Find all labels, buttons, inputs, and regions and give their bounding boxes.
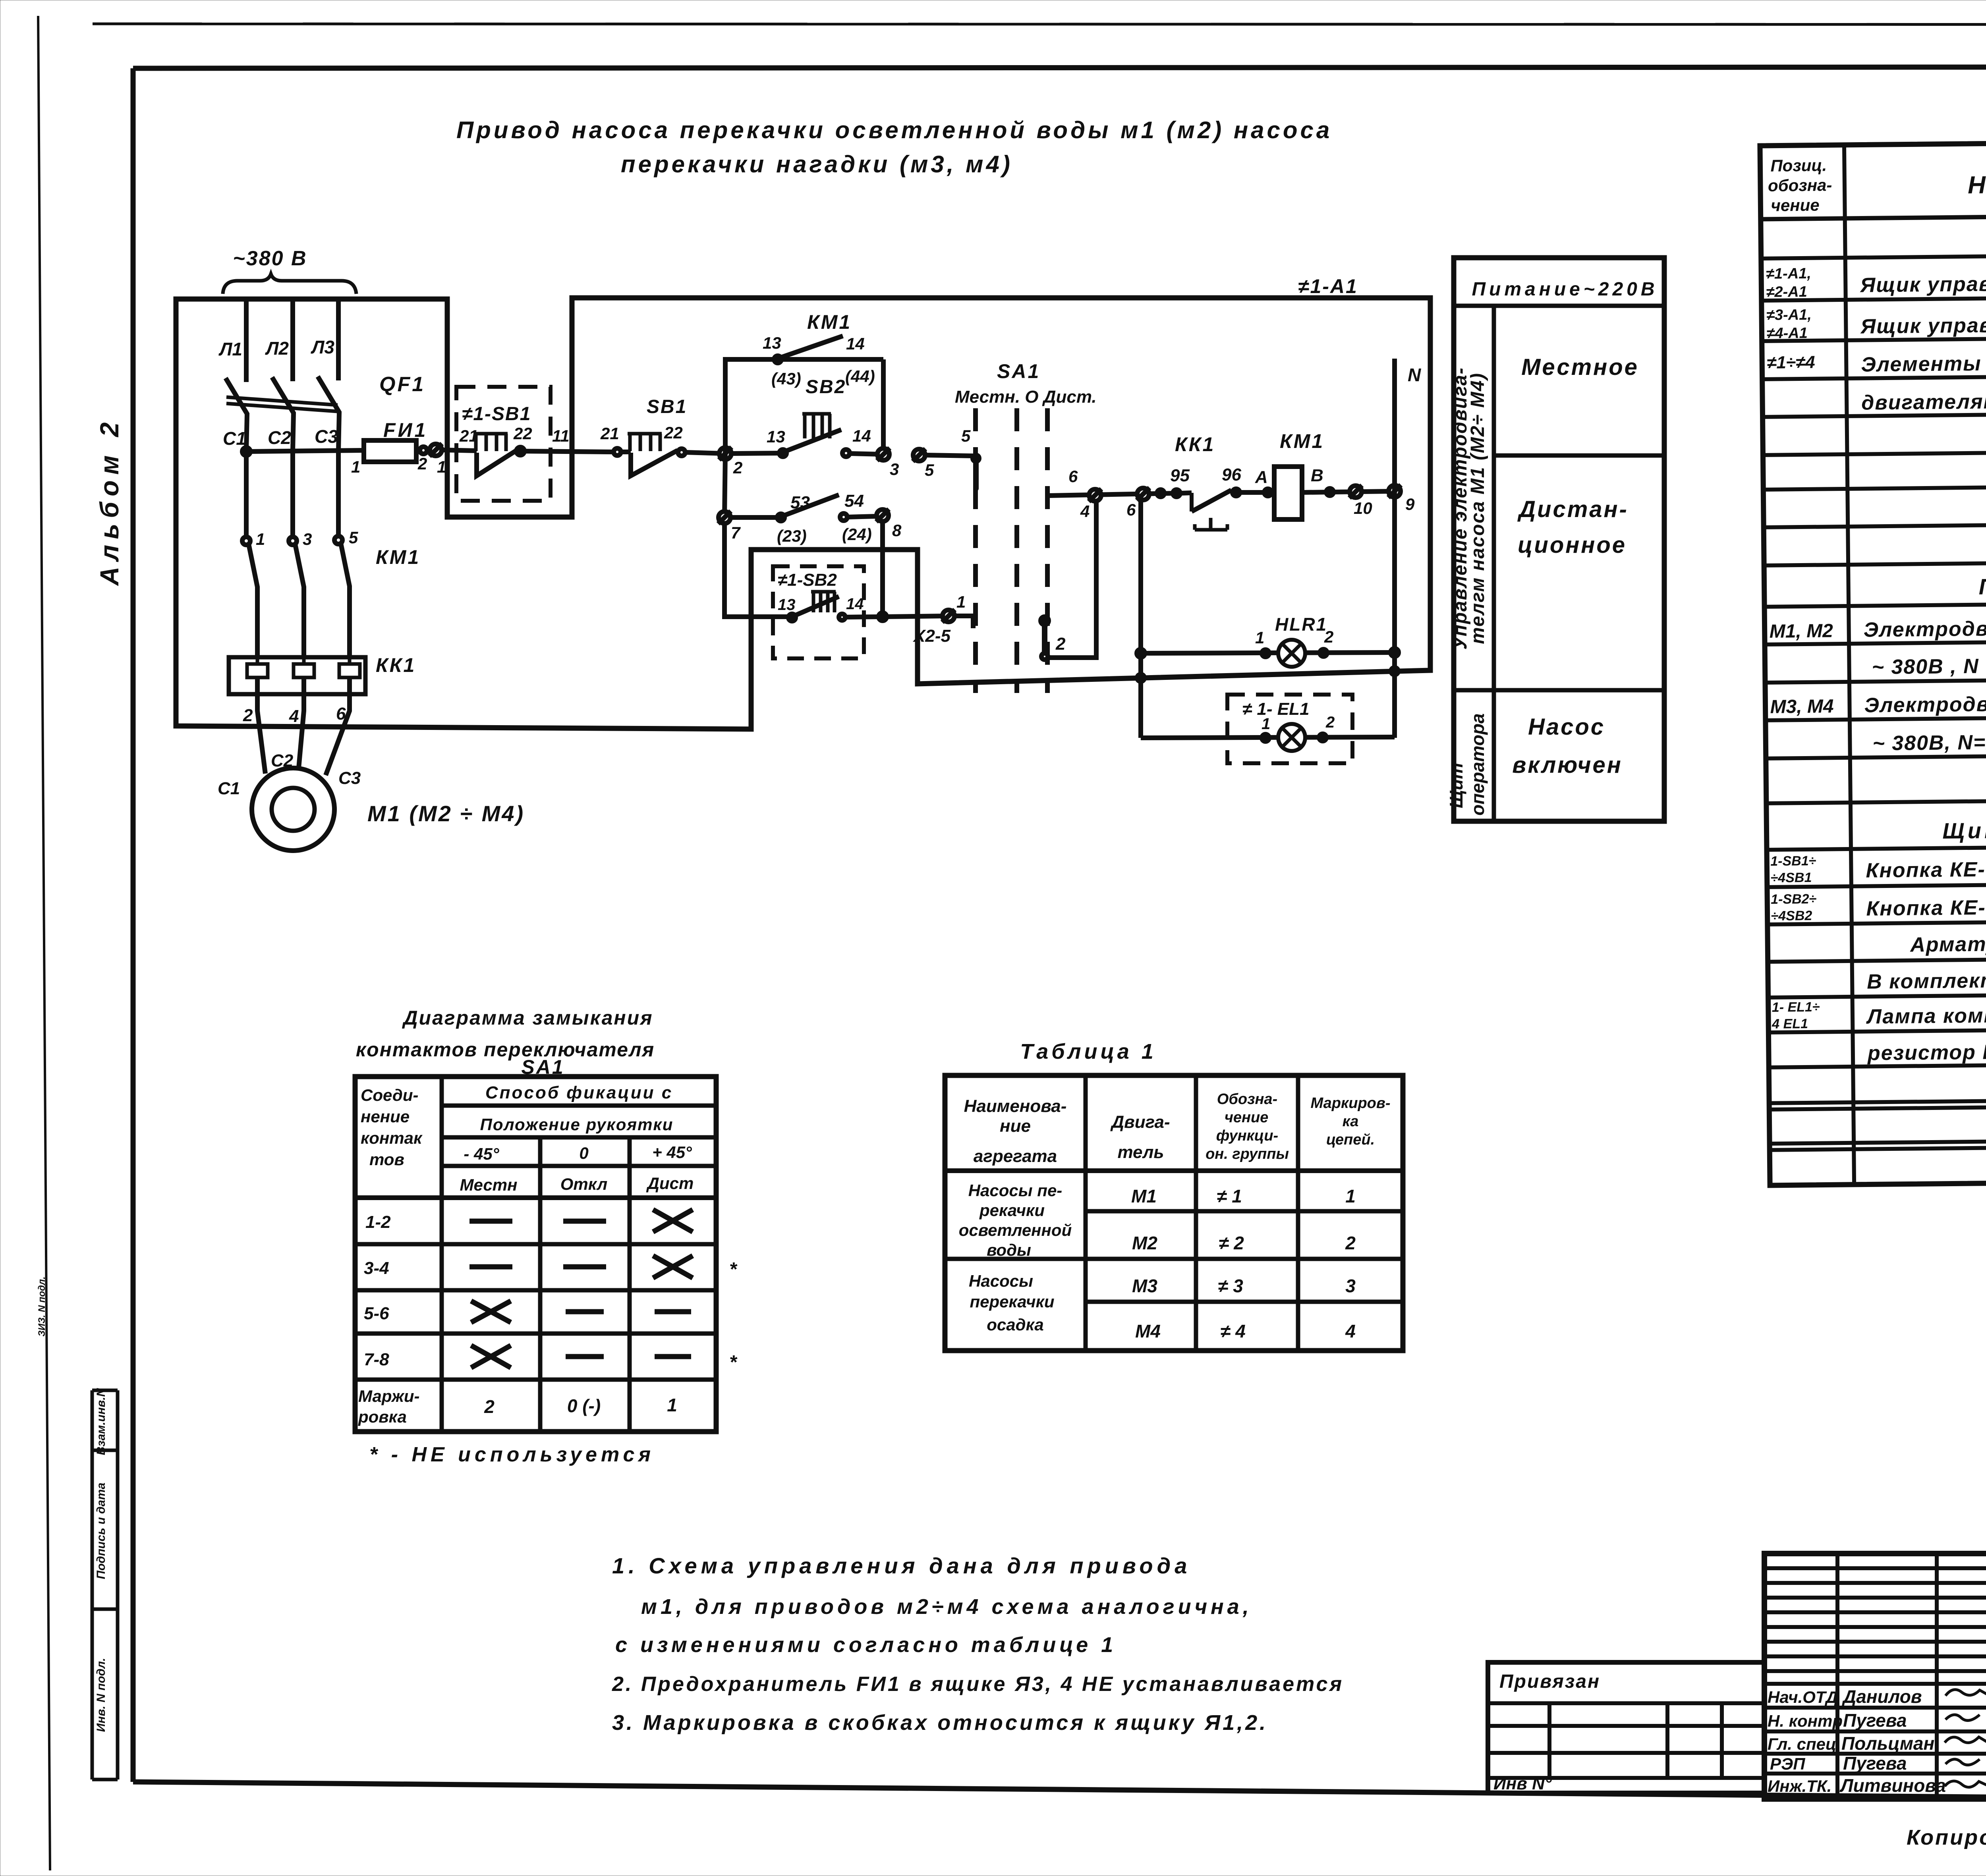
svg-text:резистор ПЭВ-25 ТУ16-535-58: резистор ПЭВ-25 ТУ16-535-582·76 bbox=[1867, 1038, 1986, 1065]
svg-text:*: * bbox=[729, 1352, 738, 1373]
svg-text:двигателями М1 ÷ М4: двигателями М1 ÷ М4 bbox=[1861, 389, 1986, 415]
lamp EL1 bbox=[1278, 724, 1305, 751]
svg-text:≠1-А1: ≠1-А1 bbox=[1298, 275, 1358, 297]
svg-text:2: 2 bbox=[243, 706, 253, 725]
svg-text:≠ 1: ≠ 1 bbox=[1217, 1186, 1242, 1206]
svg-text:М3, М4: М3, М4 bbox=[1770, 696, 1834, 718]
bus brace bbox=[223, 274, 356, 294]
svg-text:6: 6 bbox=[1126, 500, 1136, 519]
svg-text:1: 1 bbox=[1255, 628, 1264, 647]
svg-text:≠4-А1: ≠4-А1 bbox=[1766, 325, 1808, 342]
row line mestnoe/distancionnoe bbox=[1494, 454, 1664, 458]
svg-text:SB1: SB1 bbox=[647, 396, 687, 417]
svg-text:~380 В: ~380 В bbox=[233, 247, 307, 270]
svg-text:Копировал Полаевская: Копировал Полаевская bbox=[1907, 1826, 1986, 1849]
svg-text:54: 54 bbox=[844, 491, 864, 511]
svg-text:1-SB1÷: 1-SB1÷ bbox=[1770, 853, 1816, 869]
contactor coil KM1 bbox=[1274, 467, 1302, 519]
svg-text:перекачки нагадки (м3, м4): перекачки нагадки (м3, м4) bbox=[621, 151, 1013, 178]
svg-text:÷4SB1: ÷4SB1 bbox=[1770, 870, 1812, 886]
start button 1-SB2 contact bbox=[811, 590, 836, 594]
svg-text:+ 45°: + 45° bbox=[652, 1143, 692, 1162]
svg-text:~ 380В, N=2.2 кВт: ~ 380В, N=2.2 кВт bbox=[1872, 730, 1986, 755]
main border left bbox=[131, 68, 136, 1782]
junction dot N riser on box edge bbox=[1391, 668, 1398, 675]
contactor KM1 main contact 1 bbox=[242, 537, 250, 545]
svg-text:Способ фикации с: Способ фикации с bbox=[485, 1083, 673, 1102]
svg-text:≠3-А1,: ≠3-А1, bbox=[1766, 307, 1812, 324]
SA1 row sposob bbox=[442, 1104, 716, 1108]
wire to box edge bbox=[520, 451, 614, 452]
wire phase L2 bbox=[290, 299, 295, 381]
svg-text:Пугева: Пугева bbox=[1843, 1753, 1907, 1774]
circuit breaker QF1 pole 2 blade bbox=[272, 377, 294, 452]
svg-text:Пугева: Пугева bbox=[1843, 1710, 1907, 1731]
svg-text:контактов переключателя: контактов переключателя bbox=[356, 1038, 655, 1061]
junction dot lamp riser on box edge bbox=[1137, 674, 1144, 681]
svg-text:3: 3 bbox=[1345, 1276, 1356, 1296]
svg-text:ка: ка bbox=[1343, 1113, 1359, 1130]
svg-text:≠2-А1: ≠2-А1 bbox=[1766, 284, 1807, 301]
svg-text:Питание~220В: Питание~220В bbox=[1472, 279, 1658, 300]
svg-text:95: 95 bbox=[1170, 466, 1190, 485]
svg-text:≠ 2: ≠ 2 bbox=[1219, 1233, 1244, 1253]
junction dot after node 6 bbox=[1157, 490, 1164, 497]
T1 row line m3 bbox=[1086, 1300, 1403, 1304]
contactor KM1 main contact 5 bbox=[334, 536, 342, 544]
main border bottom bbox=[133, 1782, 1986, 1802]
svg-text:осадка: осадка bbox=[987, 1315, 1044, 1334]
svg-text:Электродвигатель 4А90L4: Электродвигатель 4А90L4 bbox=[1864, 691, 1986, 717]
svg-text:С1: С1 bbox=[218, 779, 240, 798]
circuit breaker QF1 pole 3 blade bbox=[318, 376, 339, 452]
svg-text:телгм насоса М1 (М2÷ М4): телгм насоса М1 (М2÷ М4) bbox=[1467, 372, 1488, 644]
svg-text:М1, М2: М1, М2 bbox=[1769, 620, 1833, 642]
svg-text:≠ 4: ≠ 4 bbox=[1220, 1321, 1246, 1341]
fuse FU1 body bbox=[364, 440, 416, 462]
header row line bbox=[1761, 212, 1986, 219]
svg-text:Таблица 1: Таблица 1 bbox=[1020, 1040, 1157, 1063]
row line distancionnoe/nasos bbox=[1454, 688, 1664, 693]
svg-text:21: 21 bbox=[600, 424, 619, 443]
terminal circle after fuse bbox=[420, 447, 427, 454]
svg-text:1. Схема управления дана дл: 1. Схема управления дана для привода bbox=[612, 1553, 1191, 1578]
svg-text:1: 1 bbox=[667, 1395, 677, 1415]
svg-text:≠1-SB1: ≠1-SB1 bbox=[462, 403, 531, 425]
svg-text:Привод насоса перекачки ос: Привод насоса перекачки осветленной воды… bbox=[456, 117, 1332, 143]
SA1 data row lines bbox=[355, 1242, 716, 1247]
svg-text:1: 1 bbox=[351, 457, 360, 476]
svg-text:чение: чение bbox=[1771, 196, 1820, 215]
wire through fuse bbox=[416, 448, 420, 453]
svg-text:2: 2 bbox=[1055, 634, 1066, 654]
outer sheet edge top line bbox=[93, 24, 1986, 25]
svg-text:Н. контр: Н. контр bbox=[1768, 1712, 1843, 1730]
TITLE BLOCK bbox=[1488, 1554, 1986, 1799]
SA1 row names bbox=[355, 1195, 716, 1200]
svg-text:1-SB2÷: 1-SB2÷ bbox=[1771, 892, 1817, 907]
table outline bbox=[1760, 138, 1986, 1185]
svg-text:ЗИЗ. N подл.: ЗИЗ. N подл. bbox=[37, 1276, 47, 1336]
SA1 dashed line 2 bbox=[1014, 408, 1019, 693]
node C1 junction dot bbox=[242, 448, 250, 455]
connector circle 1 bbox=[429, 444, 442, 456]
svg-text:Местн: Местн bbox=[460, 1175, 518, 1194]
KK1 heater 2 bbox=[294, 657, 314, 677]
svg-text:Данилов: Данилов bbox=[1841, 1686, 1922, 1707]
svg-text:13: 13 bbox=[763, 334, 781, 352]
SA1 table outline bbox=[355, 1077, 716, 1432]
svg-text:14: 14 bbox=[852, 427, 871, 445]
connector circle node 10 bbox=[1349, 485, 1362, 498]
vertical divider bbox=[1492, 306, 1496, 821]
stop button SB1 contact bbox=[628, 432, 662, 436]
svg-text:перекачки: перекачки bbox=[970, 1292, 1054, 1311]
svg-text:11: 11 bbox=[552, 427, 570, 445]
enclosure outline of control boxes Ya1.2 / Ya3.4 bbox=[176, 298, 1430, 729]
KK1 heater 3 bbox=[339, 657, 360, 677]
svg-text:включен: включен bbox=[1512, 752, 1623, 778]
svg-text:3-4: 3-4 bbox=[364, 1258, 389, 1278]
connector circle node 5 bbox=[913, 449, 925, 461]
svg-text:КК1: КК1 bbox=[1175, 433, 1215, 455]
svg-text:Лампа коммутаторная КМ24-90: Лампа коммутаторная КМ24-90 bbox=[1866, 1002, 1986, 1029]
svg-text:Маржи-: Маржи- bbox=[358, 1387, 420, 1405]
svg-text:Ящик управления Я5115-3574У: Ящик управления Я5115-3574УХЛ4 bbox=[1859, 270, 1986, 297]
svg-text:Позиц.: Позиц. bbox=[1770, 156, 1827, 175]
svg-text:Инв. N подл.: Инв. N подл. bbox=[95, 1658, 108, 1732]
svg-text:чение: чение bbox=[1225, 1109, 1269, 1126]
svg-text:Нач.ОТД: Нач.ОТД bbox=[1768, 1688, 1838, 1706]
svg-text:Гл. спец: Гл. спец bbox=[1768, 1735, 1836, 1753]
svg-text:13: 13 bbox=[767, 427, 785, 446]
svg-text:4: 4 bbox=[289, 706, 299, 726]
svg-text:- 45°: - 45° bbox=[464, 1145, 499, 1163]
SA1 row polozhenie bbox=[442, 1135, 716, 1140]
svg-text:Инж.ТК.: Инж.ТК. bbox=[1768, 1777, 1831, 1795]
svg-text:1: 1 bbox=[437, 457, 446, 476]
svg-text:нение: нение bbox=[361, 1107, 410, 1126]
wire coil line start bbox=[1049, 493, 1176, 496]
svg-text:≠1-SB2: ≠1-SB2 bbox=[778, 570, 837, 590]
svg-text:Элементы управления электро: Элементы управления электро- bbox=[1861, 350, 1986, 376]
motor M1 bbox=[252, 768, 334, 851]
svg-text:ровка: ровка bbox=[358, 1407, 407, 1426]
svg-text:осветленной: осветленной bbox=[959, 1221, 1072, 1239]
dashed box button 1-SB1 bbox=[456, 387, 551, 501]
svg-text:2. Предохранитель FИ1 в я: 2. Предохранитель FИ1 в ящике Я3, 4 НЕ у… bbox=[612, 1673, 1344, 1696]
svg-text:С1: С1 bbox=[223, 428, 246, 449]
wire node3 riser bbox=[881, 359, 886, 454]
svg-text:0 (-): 0 (-) bbox=[567, 1395, 601, 1416]
svg-text:5-6: 5-6 bbox=[364, 1304, 389, 1323]
svg-text:с изменениями согласно табли: с изменениями согласно таблице 1 bbox=[615, 1633, 1117, 1657]
svg-text:Щит оператора: Щит оператора bbox=[1942, 816, 1986, 843]
svg-text:Щит: Щит bbox=[1446, 763, 1466, 808]
svg-text:2: 2 bbox=[1325, 714, 1335, 731]
svg-text:1: 1 bbox=[1262, 715, 1270, 733]
junction dot X2-5 line bbox=[879, 613, 887, 621]
row lines bbox=[1761, 251, 1986, 259]
SA1 TABLE + TABLICA1 + NOTES bbox=[355, 1007, 1403, 1735]
svg-text:1: 1 bbox=[956, 593, 966, 611]
SA1 moving contact local bbox=[973, 455, 979, 461]
svg-text:агрегата: агрегата bbox=[974, 1146, 1057, 1166]
lamp EL1 branch wire bbox=[1141, 737, 1395, 738]
terminal circle SB1 in bbox=[614, 448, 621, 455]
svg-text:рекачки: рекачки bbox=[979, 1201, 1045, 1220]
left margin strip box bbox=[91, 1390, 94, 1779]
motor leads bbox=[257, 677, 265, 774]
svg-text:Диаграмма замыкания: Диаграмма замыкания bbox=[402, 1007, 653, 1029]
svg-text:1- EL1÷: 1- EL1÷ bbox=[1772, 1000, 1820, 1015]
wire control tap to fuse bbox=[246, 450, 364, 452]
svg-text:8: 8 bbox=[892, 521, 902, 540]
svg-text:10: 10 bbox=[1354, 499, 1372, 517]
svg-text:2: 2 bbox=[733, 458, 742, 477]
dashed box button 1-SB2 bbox=[773, 566, 864, 658]
wire 1-SB2 to X2-5 bbox=[845, 617, 883, 617]
svg-text:4 EL1: 4 EL1 bbox=[1772, 1016, 1808, 1032]
svg-text:Наименование: Наименование bbox=[1968, 169, 1986, 199]
svg-text:По месту: По месту bbox=[1978, 573, 1986, 599]
svg-text:Наименова-: Наименова- bbox=[964, 1096, 1067, 1116]
svg-text:2: 2 bbox=[484, 1396, 495, 1417]
svg-text:Литвинова: Литвинова bbox=[1839, 1775, 1946, 1796]
svg-text:функци-: функци- bbox=[1216, 1127, 1278, 1144]
svg-text:Взам.инв.N: Взам.инв.N bbox=[95, 1388, 108, 1455]
svg-text:6: 6 bbox=[1068, 467, 1078, 486]
svg-text:Насос: Насос bbox=[1528, 714, 1605, 740]
svg-text:Подпись и дата: Подпись и дата bbox=[95, 1482, 108, 1579]
wire N riser bbox=[1392, 359, 1397, 738]
svg-text:SB2: SB2 bbox=[806, 376, 846, 398]
dashed box lamp 1-EL1 bbox=[1227, 695, 1352, 763]
SA1 col line 1 bbox=[440, 1077, 444, 1432]
svg-text:3: 3 bbox=[303, 530, 312, 548]
svg-text:Местное: Местное bbox=[1521, 354, 1639, 380]
svg-text:КМ1: КМ1 bbox=[376, 546, 420, 568]
svg-text:Л3: Л3 bbox=[311, 337, 335, 357]
svg-text:(23): (23) bbox=[777, 527, 807, 545]
connector circle node 2 bbox=[719, 447, 732, 460]
svg-text:м1, для приводов м2÷м4 сх: м1, для приводов м2÷м4 схема аналогична, bbox=[641, 1595, 1252, 1619]
svg-text:HLR1: HLR1 bbox=[1275, 614, 1327, 635]
header separator bbox=[1454, 304, 1664, 308]
svg-text:QF1: QF1 bbox=[379, 373, 425, 396]
svg-text:4: 4 bbox=[1080, 502, 1090, 521]
svg-text:Насосы пе-: Насосы пе- bbox=[968, 1181, 1063, 1200]
svg-text:обозна-: обозна- bbox=[1768, 176, 1832, 195]
column line pozic bbox=[1844, 145, 1854, 1185]
svg-text:5: 5 bbox=[961, 427, 971, 445]
junction dot B bbox=[1326, 488, 1333, 496]
svg-text:Привязан: Привязан bbox=[1499, 1671, 1600, 1692]
svg-text:≠ 1- EL1: ≠ 1- EL1 bbox=[1242, 699, 1309, 719]
svg-text:3. Маркировка в скобках о: 3. Маркировка в скобках относится к ящик… bbox=[612, 1711, 1268, 1735]
svg-text:КМ1: КМ1 bbox=[807, 311, 852, 333]
Tablica 1 outline bbox=[945, 1075, 1403, 1351]
outer sheet edge left line bbox=[38, 16, 50, 1870]
svg-text:Обозна-: Обозна- bbox=[1217, 1091, 1277, 1108]
svg-text:4: 4 bbox=[1345, 1321, 1356, 1341]
svg-text:В комплекте;: В комплекте; bbox=[1867, 969, 1986, 994]
svg-text:контак: контак bbox=[361, 1129, 423, 1147]
connector circle node 4 bbox=[1089, 489, 1101, 502]
wire SA1-2 to coil line riser bbox=[1048, 496, 1096, 658]
wire SB2 to node 3 bbox=[850, 454, 883, 454]
stamp thin rows bbox=[1764, 1566, 1986, 1570]
svg-text:Дистан-: Дистан- bbox=[1517, 496, 1629, 522]
svg-text:КК1: КК1 bbox=[376, 654, 416, 676]
main border top bbox=[133, 67, 1986, 68]
svg-text:2: 2 bbox=[1345, 1233, 1356, 1253]
svg-text:Альбом 2: Альбом 2 bbox=[95, 417, 124, 587]
svg-text:тель: тель bbox=[1117, 1143, 1164, 1162]
svg-text:Ящик управления Я5115-2874У: Ящик управления Я5115-2874УХЛ4 bbox=[1860, 311, 1986, 338]
svg-text:Польцман: Польцман bbox=[1841, 1733, 1934, 1754]
svg-text:1: 1 bbox=[256, 530, 265, 548]
wire phase L3 bbox=[336, 299, 341, 380]
svg-text:2: 2 bbox=[1324, 627, 1333, 646]
svg-text:5: 5 bbox=[925, 461, 934, 479]
svg-text:≠ 3: ≠ 3 bbox=[1218, 1276, 1243, 1296]
SCHEMATIC bbox=[176, 247, 1430, 851]
stop button 1-SB1 contact bbox=[473, 432, 508, 436]
svg-text:(24): (24) bbox=[842, 525, 872, 544]
SA1 row angles bbox=[442, 1164, 716, 1168]
svg-text:≠1-А1,: ≠1-А1, bbox=[1766, 265, 1811, 282]
svg-text:22: 22 bbox=[513, 424, 532, 443]
svg-text:М1: М1 bbox=[1131, 1186, 1157, 1206]
svg-text:Положение рукоятки: Положение рукоятки bbox=[480, 1115, 674, 1134]
svg-text:Маркиров-: Маркиров- bbox=[1311, 1095, 1391, 1112]
T1 row line m2 bbox=[945, 1257, 1403, 1261]
svg-text:5: 5 bbox=[349, 528, 358, 547]
svg-text:тов: тов bbox=[369, 1150, 404, 1169]
svg-text:В: В bbox=[1311, 466, 1323, 485]
svg-text:Инв N°: Инв N° bbox=[1493, 1774, 1552, 1793]
signatures bbox=[1945, 1690, 1986, 1696]
junction dot A bbox=[1264, 489, 1271, 496]
wire into panel bbox=[442, 450, 477, 451]
wire node8 down bbox=[880, 521, 885, 617]
pitanie table outline bbox=[1454, 258, 1664, 821]
svg-text:3: 3 bbox=[890, 460, 899, 479]
stamp outline bbox=[1764, 1554, 1986, 1799]
svg-text:С2: С2 bbox=[268, 427, 291, 448]
svg-text:7: 7 bbox=[731, 523, 741, 542]
svg-text:22: 22 bbox=[664, 423, 683, 442]
svg-text:14: 14 bbox=[846, 334, 865, 353]
junction dot 22 bbox=[516, 447, 524, 455]
svg-text:Л1: Л1 bbox=[218, 339, 242, 359]
wire node2 to SB2 bbox=[731, 453, 783, 454]
svg-text:13: 13 bbox=[778, 596, 796, 614]
svg-text:Кнопка КЕ-01 исп 2.: Кнопка КЕ-01 исп 2. „ Пуск “ bbox=[1866, 856, 1986, 882]
wire end at SA1 bbox=[954, 616, 973, 628]
SA1 dashed line 1 bbox=[973, 408, 978, 693]
svg-text:С3: С3 bbox=[338, 768, 361, 788]
svg-text:Двига-: Двига- bbox=[1110, 1112, 1170, 1132]
node 7 riser from node 2 bbox=[724, 454, 725, 517]
svg-text:ние: ние bbox=[1000, 1116, 1031, 1136]
KK1 heater 1 bbox=[247, 657, 268, 677]
svg-text:~ 380В , N = 15 кВт: ~ 380В , N = 15 кВт bbox=[1872, 654, 1986, 679]
svg-text:÷4SB2: ÷4SB2 bbox=[1771, 908, 1812, 924]
terminal circle SB1 out bbox=[678, 449, 685, 456]
svg-text:С3: С3 bbox=[315, 426, 338, 447]
T1 col line 3 bbox=[1296, 1075, 1300, 1351]
svg-text:1-2: 1-2 bbox=[365, 1212, 391, 1232]
svg-text:М1 (М2 ÷ М4): М1 (М2 ÷ М4) bbox=[367, 801, 525, 826]
stamp left grid verticals bbox=[1835, 1554, 1839, 1799]
svg-text:Откл: Откл bbox=[560, 1175, 607, 1193]
svg-text:РЭП: РЭП bbox=[1770, 1754, 1805, 1773]
SA1 dashed line 3 bbox=[1045, 408, 1050, 693]
wire to SA1 bbox=[925, 455, 973, 456]
svg-text:цепей.: цепей. bbox=[1326, 1131, 1375, 1148]
COMPONENT TABLE bbox=[1760, 138, 1986, 1185]
T1 col line 1 bbox=[1084, 1075, 1088, 1351]
svg-text:М4: М4 bbox=[1135, 1321, 1161, 1341]
T1 header line bbox=[945, 1168, 1403, 1173]
thermal relay KK1 box bbox=[229, 657, 365, 694]
svg-text:Кнопка КЕ-011 исп. 3 „ Сто: Кнопка КЕ-011 исп. 3 „ Стоп“ bbox=[1866, 894, 1986, 921]
connector circle node 1 bbox=[942, 610, 955, 622]
svg-text:X2-5: X2-5 bbox=[912, 626, 950, 646]
stamp signer rows bbox=[1764, 1706, 1986, 1710]
wire phase L1 bbox=[244, 299, 249, 382]
svg-text:(44): (44) bbox=[845, 367, 875, 386]
svg-text:0: 0 bbox=[579, 1144, 588, 1162]
SA1 moving contact remote bbox=[1041, 617, 1049, 625]
svg-text:*: * bbox=[729, 1259, 738, 1280]
svg-text:N: N bbox=[1408, 365, 1421, 385]
svg-text:С2: С2 bbox=[271, 751, 294, 770]
circuit breaker QF1 pole 1 blade bbox=[226, 378, 247, 452]
svg-text:SА1: SА1 bbox=[997, 360, 1040, 382]
wire node7 down and left to remote button bbox=[724, 523, 792, 617]
svg-text:оператора: оператора bbox=[1467, 713, 1488, 816]
lamp HLR1 branch wire bbox=[1137, 649, 1145, 657]
svg-text:(43): (43) bbox=[771, 369, 801, 388]
svg-text:7-8: 7-8 bbox=[364, 1350, 389, 1369]
svg-text:Соеди-: Соеди- bbox=[361, 1086, 418, 1104]
svg-text:14: 14 bbox=[846, 595, 864, 613]
wire X2-5 bbox=[883, 616, 949, 617]
QF1 linkage double bar bbox=[226, 397, 338, 405]
svg-text:КМ1: КМ1 bbox=[1280, 430, 1324, 452]
wire QF to KM contacts bbox=[244, 452, 249, 537]
wire to node 2 bbox=[685, 452, 725, 454]
svg-text:Электродвигатель 4А160S2: Электродвигатель 4А160S2 bbox=[1863, 616, 1986, 642]
KM1 aux contact 13-14 top bbox=[774, 356, 781, 363]
svg-text:≠1÷≠4: ≠1÷≠4 bbox=[1767, 353, 1815, 372]
connector circle node 9 bbox=[1388, 485, 1401, 498]
svg-text:96: 96 bbox=[1222, 465, 1241, 484]
SA1 col line 3 bbox=[628, 1137, 632, 1432]
T1 row line m1 bbox=[1086, 1209, 1403, 1214]
contactor KM1 main contact 3 bbox=[289, 537, 297, 545]
svg-text:Л2: Л2 bbox=[265, 338, 289, 359]
wire branch up from node 2 bbox=[725, 359, 883, 454]
svg-text:воды: воды bbox=[987, 1241, 1031, 1259]
connector circle node 6 bbox=[1137, 488, 1149, 500]
svg-text:2: 2 bbox=[417, 454, 427, 473]
wire lamp branch riser bbox=[1138, 494, 1143, 738]
T1 col line 2 bbox=[1194, 1075, 1198, 1351]
